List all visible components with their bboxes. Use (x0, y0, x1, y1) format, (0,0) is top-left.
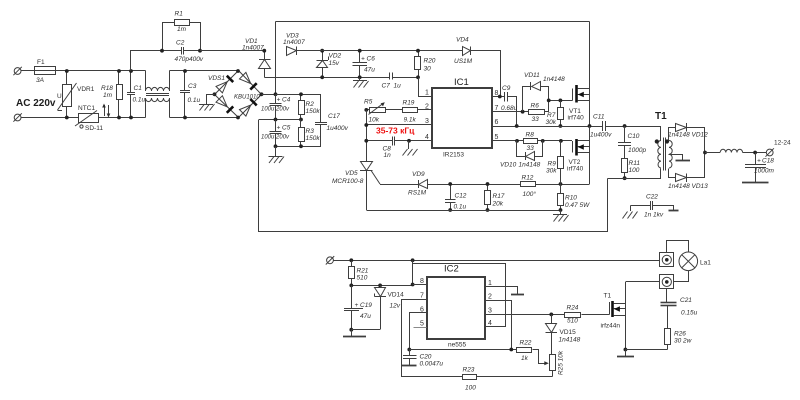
ground below C18 (742, 182, 769, 184)
ground below C20 (402, 365, 417, 367)
svg-text:10k: 10k (369, 117, 380, 124)
svg-text:1n4148: 1n4148 (519, 162, 541, 169)
svg-text:C21: C21 (680, 297, 692, 304)
resistor R20 (415, 51, 436, 78)
svg-text:7: 7 (495, 105, 499, 112)
ground below C19 (343, 330, 366, 338)
svg-text:1n4148 VD12: 1n4148 VD12 (668, 132, 708, 139)
svg-text:1: 1 (488, 280, 492, 287)
node VDR1 bottom (65, 116, 69, 120)
svg-text:5: 5 (495, 134, 499, 141)
svg-text:C3: C3 (188, 83, 197, 90)
diode VD15 (546, 315, 581, 355)
wire pin6 midpoint row (492, 126, 604, 128)
wire bottom row C4C5 (276, 146, 322, 148)
ground below source (617, 350, 634, 358)
node R5 left (364, 108, 368, 112)
svg-text:F1: F1 (37, 59, 45, 66)
wire HF row to VD1 (200, 50, 265, 52)
svg-text:2: 2 (488, 294, 492, 301)
svg-text:1n4148: 1n4148 (543, 76, 565, 83)
node COM ground (407, 139, 411, 143)
svg-text:+: + (277, 97, 281, 104)
ground at COM (403, 141, 418, 156)
ground below C5 (269, 147, 285, 164)
svg-text:VD4: VD4 (456, 37, 469, 44)
wire gate1 row (549, 100, 573, 102)
resistor R22 (517, 340, 549, 366)
node C12 bottom (448, 208, 452, 212)
node vcc junction (411, 258, 415, 262)
svg-text:La1: La1 (700, 260, 711, 267)
svg-text:30k: 30k (546, 119, 557, 126)
svg-text:1000m: 1000m (754, 168, 774, 175)
resistor R8 (524, 132, 573, 153)
node C19 bottom (349, 328, 353, 332)
node mid C4C5 (274, 118, 278, 122)
svg-text:5: 5 (420, 321, 424, 328)
svg-text:R11: R11 (629, 160, 641, 167)
capacitor C11 (590, 114, 661, 139)
node VD2 bottom (320, 75, 324, 79)
node R8 right (541, 139, 545, 143)
resistor R6 (529, 101, 549, 124)
wire pin7 to R23 (402, 300, 463, 377)
fuse F1 (35, 59, 57, 84)
resistor R18 (101, 71, 123, 118)
svg-text:6: 6 (495, 119, 499, 126)
node R11 bottom (623, 176, 627, 180)
resistor R11 (622, 159, 641, 179)
mosfet VT1 irf740 (568, 22, 590, 127)
node R2 top (299, 92, 303, 96)
svg-text:1n4007: 1n4007 (242, 45, 264, 52)
capacitor C21 (661, 289, 698, 329)
svg-text:VD2: VD2 (329, 53, 342, 60)
svg-text:510: 510 (567, 318, 578, 325)
node C1 bottom (129, 116, 133, 120)
resistor R10 (558, 184, 591, 210)
svg-text:R5: R5 (364, 99, 373, 106)
svg-text:C7: C7 (382, 83, 391, 90)
svg-text:VD14: VD14 (388, 292, 405, 299)
svg-text:35-73 кГц: 35-73 кГц (376, 126, 415, 136)
svg-text:1n 1kv: 1n 1kv (644, 212, 664, 219)
capacitor C18 (745, 153, 774, 184)
varistor VDR1 (57, 71, 95, 118)
node mid R2R3 (299, 118, 303, 122)
svg-text:R3: R3 (306, 128, 315, 135)
svg-text:C22: C22 (646, 194, 658, 201)
svg-text:47u: 47u (364, 67, 375, 74)
wire R20 to IC1 pin1 (419, 78, 433, 97)
resistor R17 (485, 184, 505, 210)
output terminal 12-24 (766, 140, 792, 157)
svg-text:30: 30 (424, 66, 432, 73)
svg-text:0.68u: 0.68u (501, 105, 518, 112)
svg-text:0.47 5W: 0.47 5W (565, 202, 590, 209)
node C1 top (129, 69, 133, 73)
wire pin1 to gnd (486, 287, 518, 295)
wire (56, 70, 146, 72)
svg-text:100u 200v: 100u 200v (261, 107, 290, 113)
svg-text:30k: 30k (546, 168, 557, 175)
svg-text:7: 7 (420, 293, 424, 300)
svg-text:MCR100-8: MCR100-8 (332, 178, 364, 185)
capacitor C9 (492, 85, 518, 127)
diode VD12 (668, 123, 708, 141)
node rectifier out (703, 151, 707, 155)
wire row184 (450, 184, 521, 186)
svg-text:100: 100 (465, 385, 476, 392)
wire pin8 row (352, 285, 413, 287)
svg-text:3: 3 (425, 118, 429, 125)
svg-text:C2: C2 (176, 40, 185, 47)
svg-text:R18: R18 (101, 85, 113, 92)
svg-text:R2: R2 (306, 101, 315, 108)
node R10 top (559, 182, 563, 186)
svg-text:IR2153: IR2153 (443, 152, 464, 159)
resistor R21 (349, 261, 369, 286)
connector lower (660, 275, 674, 289)
node R7 bottom (559, 124, 563, 128)
svg-text:C11: C11 (593, 114, 605, 121)
wire pin6 to C20 node (410, 313, 427, 350)
resistor R7 (546, 101, 564, 127)
node R1 left (160, 49, 164, 53)
node VDR1 top (65, 69, 69, 73)
node C12 top (448, 182, 452, 186)
svg-text:T1: T1 (604, 293, 612, 300)
ground at bottom rail (553, 210, 569, 222)
wire bottom rail after choke (170, 117, 239, 119)
svg-text:100u 200v: 100u 200v (261, 135, 290, 141)
svg-text:0.1u: 0.1u (454, 204, 467, 211)
wire +rail vertical (275, 22, 277, 95)
svg-text:1m: 1m (103, 92, 113, 99)
svg-text:C17: C17 (328, 113, 340, 120)
resistor R23 (463, 367, 553, 392)
wire pin3 row (486, 314, 566, 316)
node C6 bottom (358, 75, 362, 79)
svg-text:R20: R20 (424, 58, 436, 65)
svg-text:US1M: US1M (454, 58, 473, 65)
return wire from C4C5 mid to T1 (259, 120, 608, 232)
node R9 top (559, 139, 563, 143)
svg-text:R24: R24 (567, 305, 579, 312)
node C9 return (515, 124, 519, 128)
svg-text:12v: 12v (390, 303, 401, 310)
secondary center tap to ground (669, 155, 691, 161)
wire +rail top (276, 21, 590, 23)
node C3 top (183, 69, 187, 73)
svg-text:+: + (355, 302, 359, 309)
svg-text:1m: 1m (177, 26, 187, 33)
node bridge bottom (236, 116, 240, 120)
node R7 top (559, 99, 563, 103)
svg-text:0.1u: 0.1u (133, 97, 146, 104)
svg-text:C18: C18 (762, 158, 774, 165)
svg-text:C6: C6 (367, 56, 376, 63)
diode VD11 (523, 72, 566, 112)
svg-text:3A: 3A (36, 77, 44, 84)
svg-text:R22: R22 (520, 340, 532, 347)
svg-text:C4: C4 (282, 97, 291, 104)
svg-text:R8: R8 (526, 132, 535, 139)
node C3 bottom (183, 116, 187, 120)
svg-text:12-24: 12-24 (774, 140, 791, 147)
zener VD2 (317, 51, 342, 78)
svg-text:C20: C20 (420, 354, 432, 361)
IC2 ne555 (420, 264, 492, 349)
wire pin3 row (367, 124, 433, 126)
mosfet VT2 irf740 (567, 126, 590, 184)
input terminal bottom circuit (326, 256, 334, 264)
resistor R24 (565, 305, 610, 325)
svg-text:1: 1 (425, 90, 429, 97)
svg-text:1u: 1u (394, 83, 402, 90)
wire up to HF bypass row (131, 51, 163, 71)
node pin8 stub (411, 283, 415, 287)
node bottom C5 (274, 144, 278, 148)
node R18 bottom (117, 116, 121, 120)
svg-text:R19: R19 (403, 100, 415, 107)
wire pin2 down (486, 301, 512, 350)
svg-text:AC 220v: AC 220v (16, 98, 56, 109)
diode VD9 RS1M (408, 171, 450, 197)
svg-text:R21: R21 (357, 268, 369, 275)
svg-text:100°: 100° (523, 190, 537, 198)
diode VD3 (283, 33, 305, 56)
node VD15 top (549, 313, 553, 317)
svg-text:150k: 150k (306, 135, 321, 142)
capacitor C4 (261, 95, 291, 120)
svg-text:0.15u: 0.15u (681, 310, 698, 317)
capacitor C12 (445, 184, 467, 211)
svg-text:R1: R1 (175, 11, 184, 18)
svg-text:VD15: VD15 (560, 329, 577, 336)
node pin8 (498, 95, 502, 99)
node VD14 top (378, 284, 382, 288)
node R17 top (486, 182, 490, 186)
zener VD14 (375, 286, 405, 330)
capacitor C17 (315, 95, 349, 147)
svg-text:470p400v: 470p400v (175, 56, 204, 63)
diode VD1 (242, 38, 271, 78)
node R18 top (117, 69, 121, 73)
node R20 top (416, 49, 420, 53)
svg-text:RS1M: RS1M (408, 190, 427, 197)
svg-text:100: 100 (629, 167, 640, 174)
node bridge right (260, 92, 264, 96)
svg-text:irfz44n: irfz44n (601, 323, 621, 330)
node C19 top (349, 284, 353, 288)
svg-text:R17: R17 (493, 193, 505, 200)
svg-text:33: 33 (527, 145, 535, 152)
capacitor C1 (127, 71, 146, 118)
svg-text:1u400v: 1u400v (327, 125, 349, 132)
capacitor C19 (344, 286, 372, 330)
wire VCC row (265, 77, 390, 79)
svg-text:+: + (277, 125, 281, 132)
svg-text:510: 510 (357, 275, 368, 282)
node midpoint (588, 124, 592, 128)
wire bridge out to C4 column (262, 94, 276, 96)
wire C4 row right (276, 94, 322, 96)
svg-text:4: 4 (488, 320, 492, 327)
svg-text:VDS1: VDS1 (208, 75, 225, 82)
wire gate row to VD9 (380, 184, 419, 186)
svg-text:20k: 20k (492, 201, 504, 208)
wire R5-R19 (386, 109, 403, 111)
svg-text:ne555: ne555 (448, 342, 466, 349)
node R17 bottom (486, 208, 490, 212)
resistor R9 (546, 141, 564, 184)
svg-text:C5: C5 (282, 125, 291, 132)
node R21 top (349, 258, 353, 262)
svg-text:30 2w: 30 2w (674, 338, 693, 345)
node VD10 left (515, 139, 519, 143)
wire vcc drop to pin8 (412, 261, 414, 285)
svg-text:1k: 1k (521, 355, 529, 362)
potentiometer R25 (550, 350, 565, 376)
mosfet T1 irfz44n (601, 282, 626, 350)
svg-text:C12: C12 (455, 193, 467, 200)
capacitor C10 (618, 126, 646, 159)
svg-text:R25 10k: R25 10k (558, 350, 565, 375)
svg-text:4: 4 (425, 134, 429, 141)
svg-text:KBU1010: KBU1010 (234, 95, 260, 101)
node bridge top (236, 69, 240, 73)
svg-text:T1: T1 (655, 111, 667, 122)
node R20 bottom (416, 75, 420, 79)
svg-text:C10: C10 (628, 133, 640, 140)
wire T1 primary bottom row (608, 178, 662, 180)
svg-text:1u400v: 1u400v (590, 132, 612, 139)
svg-text:IC2: IC2 (444, 264, 459, 275)
svg-text:VD5: VD5 (345, 170, 358, 177)
bridge rectifier VDS1 KBU1010 (208, 71, 262, 118)
pin5 stub (414, 327, 427, 329)
ground C22 left (622, 206, 638, 219)
wire row51 VD3 to VD4 (297, 50, 463, 52)
IC1 IR2153 (425, 77, 499, 159)
trimmer R5 (364, 99, 386, 124)
svg-text:R23: R23 (463, 367, 475, 374)
svg-text:47u: 47u (360, 313, 371, 320)
svg-text:R6: R6 (531, 103, 540, 110)
svg-text:IC1: IC1 (454, 77, 469, 88)
wire bottom rail (367, 210, 561, 212)
svg-text:1n4148 VD13: 1n4148 VD13 (668, 183, 708, 190)
transformer T1 (655, 111, 673, 179)
svg-text:8: 8 (420, 278, 424, 285)
svg-text:33: 33 (532, 116, 540, 123)
output filter inductor (705, 149, 767, 152)
svg-text:irf740: irf740 (568, 115, 585, 122)
node C8 vert (364, 139, 368, 143)
wire pin8 stub (413, 284, 427, 286)
svg-text:8: 8 (495, 90, 499, 97)
input terminal top (13, 67, 21, 75)
svg-text:SD-11: SD-11 (85, 125, 103, 132)
svg-text:1n4007: 1n4007 (283, 39, 305, 46)
svg-text:1000p: 1000p (628, 147, 646, 154)
ground pin1 (511, 294, 524, 296)
svg-text:0.1u: 0.1u (188, 97, 201, 104)
node pin3 (364, 123, 368, 127)
svg-text:U: U (57, 93, 62, 100)
lamp La1 (667, 241, 712, 282)
resistor R2 (299, 95, 321, 120)
svg-text:1n: 1n (384, 152, 392, 159)
node C20 top (407, 348, 411, 352)
wire reset branch (413, 264, 506, 327)
wire (99, 117, 146, 119)
node R22 left (509, 348, 513, 352)
svg-text:3: 3 (488, 308, 492, 315)
wire threshold row (410, 349, 518, 351)
diode VD4 (454, 37, 473, 66)
wire supply row (334, 260, 660, 262)
wire pin5 row (492, 140, 524, 142)
node R1 right (198, 49, 202, 53)
svg-text:R26: R26 (674, 331, 686, 338)
svg-text:R12: R12 (522, 175, 534, 182)
svg-text:150k: 150k (306, 108, 321, 115)
wire CT vertical (366, 110, 368, 162)
svg-text:+: + (757, 158, 761, 165)
ground at bridge left (199, 95, 215, 111)
thermistor NTC1 (75, 105, 103, 132)
wire top rail left (21, 70, 35, 72)
diode VD13 (668, 169, 708, 191)
svg-text:R9: R9 (548, 161, 557, 168)
svg-text:VD9: VD9 (412, 171, 425, 178)
node source gnd (624, 348, 628, 352)
wire bottom rail left (21, 117, 79, 119)
svg-text:R7: R7 (547, 112, 556, 119)
resistor R1 (163, 11, 201, 51)
diode VD10 (500, 141, 543, 169)
svg-text:15v: 15v (329, 60, 340, 67)
node rail gnd (559, 208, 563, 212)
wire mid row (259, 119, 301, 121)
wire top rail after choke (170, 70, 239, 72)
capacitor C5 (261, 120, 291, 147)
node gate1 (547, 99, 551, 103)
ground below C6 (353, 78, 369, 88)
resistor R19 (403, 100, 433, 124)
capacitor C2 (162, 40, 204, 64)
svg-text:irf740: irf740 (567, 166, 584, 173)
capacitor C6 (353, 51, 376, 78)
capacitor C22 (631, 194, 674, 219)
node bottom R3 (299, 144, 303, 148)
input terminal bottom (13, 113, 21, 121)
resistor R26 (626, 329, 693, 350)
wire lower connector to drain (626, 281, 660, 283)
common mode choke L1 (146, 71, 170, 118)
thyristor VD5 MCR100-8 (332, 162, 380, 211)
wire VD14 to C19 gnd (352, 329, 381, 331)
svg-text:C19: C19 (360, 302, 372, 309)
svg-text:C1: C1 (134, 85, 143, 92)
plate C22 right (669, 210, 679, 212)
connector upper (660, 253, 674, 267)
svg-text:+: + (361, 56, 365, 63)
node VD1 top (262, 49, 266, 53)
